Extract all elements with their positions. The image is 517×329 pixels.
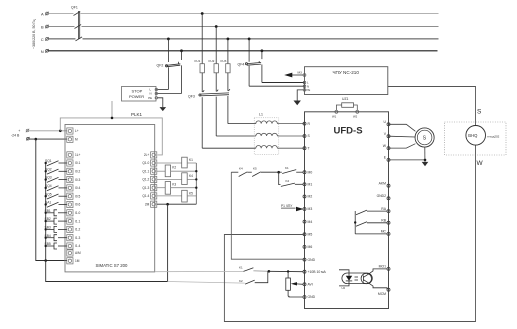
svg-text:GND2: GND2 <box>377 194 387 198</box>
ground symbol at CNC <box>294 101 301 106</box>
svg-text:U2: U2 <box>342 286 346 290</box>
svg-text:Q1.2: Q1.2 <box>142 178 149 182</box>
svg-text:~380/220 В, 50 Гц: ~380/220 В, 50 Гц <box>32 20 36 49</box>
svg-text:K2: K2 <box>239 279 243 283</box>
svg-text:1M: 1M <box>75 259 80 263</box>
wire 2M to relay common <box>157 203 197 205</box>
svg-text:I1.4: I1.4 <box>75 244 81 248</box>
junction dot C-FU3 <box>227 38 230 41</box>
fuse FU2 <box>209 27 219 92</box>
relay coil K3 <box>157 182 197 195</box>
junction dot +24V riser <box>59 130 62 133</box>
node C terminal <box>41 37 49 42</box>
junction dot 2M <box>166 203 169 206</box>
svg-text:A/M: A/M <box>75 251 81 255</box>
wire GND riser to K4 chain <box>231 172 304 259</box>
svg-text:I1.2: I1.2 <box>75 228 81 232</box>
PLC right pin column <box>151 152 157 208</box>
svg-text:N: N <box>41 49 44 54</box>
svg-text:I0.5: I0.5 <box>75 194 81 198</box>
svg-text:POWER: POWER <box>129 94 144 99</box>
pin W2 <box>356 110 359 113</box>
svg-text:K5: K5 <box>253 166 257 170</box>
svg-text:QF1: QF1 <box>71 6 78 10</box>
selector switch SA1 <box>45 201 67 208</box>
svg-text:MC: MC <box>381 230 387 234</box>
svg-text:AVI: AVI <box>308 283 313 287</box>
svg-text:Р1 ЧПУ: Р1 ЧПУ <box>281 204 293 208</box>
svg-text:GND: GND <box>308 295 316 299</box>
svg-text:I1.3: I1.3 <box>75 236 81 240</box>
junction dot 1M branch <box>44 259 47 262</box>
wire E to motor ground <box>389 159 426 161</box>
svg-text:+: + <box>18 129 20 133</box>
svg-text:L1: L1 <box>259 112 263 116</box>
internal relay contact RB <box>354 221 387 226</box>
svg-text:PE: PE <box>307 88 311 92</box>
svg-text:MCM: MCM <box>378 292 386 296</box>
wire 0V left riser to 1M <box>36 139 67 260</box>
wire switch common vertical <box>45 163 47 261</box>
svg-text:K1: K1 <box>189 158 193 162</box>
svg-text:MO1: MO1 <box>379 265 386 269</box>
svg-text:RB: RB <box>381 219 386 223</box>
svg-text:RA: RA <box>381 207 386 211</box>
breaker QF2 <box>157 39 182 94</box>
svg-text:A: A <box>41 12 44 17</box>
junction dot N-QF4 <box>261 49 264 52</box>
svg-text:T: T <box>308 146 310 150</box>
relay coil K2 <box>157 165 197 177</box>
wire CNC PE to ground <box>297 90 303 101</box>
wire neutral N <box>48 50 437 52</box>
svg-text:B: B <box>41 25 44 30</box>
junction dot bus/stop-power <box>111 117 114 120</box>
svg-text:FU1: FU1 <box>195 59 201 63</box>
limit switch SQ3 <box>45 176 67 183</box>
push button SB1 <box>45 209 67 216</box>
svg-text:UFD-S: UFD-S <box>334 126 363 137</box>
svg-text:QF4: QF4 <box>238 62 245 66</box>
svg-text:I0.6: I0.6 <box>75 203 81 207</box>
CNC pin PE <box>303 88 310 92</box>
node -24V terminal <box>11 134 30 141</box>
contact K4 <box>231 166 247 176</box>
svg-text:AKM: AKM <box>379 182 387 186</box>
svg-text:W1: W1 <box>332 115 337 119</box>
wire W to motor <box>389 144 416 148</box>
svg-text:п-код202: п-код202 <box>487 135 500 139</box>
wire relay common vertical <box>195 163 197 204</box>
relay coil K5 <box>157 190 197 202</box>
CNC pin N <box>303 84 309 88</box>
frequency drive UFD-S box <box>305 112 389 309</box>
motor M <box>415 128 434 147</box>
svg-text:K5: K5 <box>189 191 193 195</box>
CNC controller U-NC210 box <box>305 67 388 95</box>
junction dot N-QF2 <box>180 49 183 52</box>
svg-text:BHQ: BHQ <box>468 133 478 138</box>
svg-text:K4: K4 <box>189 174 193 178</box>
limit switch SQ4 <box>45 184 67 191</box>
svg-text:M5: M5 <box>308 233 313 237</box>
junction dot C-QF4 <box>248 38 251 41</box>
svg-text:K4: K4 <box>239 166 243 170</box>
ground symbol at stop-power <box>160 107 167 111</box>
svg-text:2L+: 2L+ <box>144 153 150 157</box>
inductor L1 <box>254 112 279 154</box>
pin W1 <box>335 110 338 113</box>
svg-text:Q1.4: Q1.4 <box>142 194 149 198</box>
svg-text:Q1.0: Q1.0 <box>142 161 149 165</box>
relay coil K4 <box>157 173 197 185</box>
CNC pin M3 <box>298 70 306 76</box>
ground symbol at motor <box>422 160 429 166</box>
wire opto collector to MO1 <box>369 269 388 274</box>
svg-text:M3: M3 <box>308 207 313 211</box>
power supply unit STOP POWER <box>122 87 158 102</box>
breaker QF4 <box>238 39 262 86</box>
svg-text:M3: M3 <box>298 70 303 74</box>
wire QF4 to CNC N <box>249 85 304 87</box>
junction dot K4 common <box>195 178 197 180</box>
wire QF3 to L1 R-row <box>228 123 256 125</box>
push button SB3 <box>45 226 67 233</box>
svg-text:I1.0: I1.0 <box>75 211 81 215</box>
svg-text:2M: 2M <box>145 202 150 206</box>
wire to +10V pin <box>269 270 303 272</box>
wire motor down <box>424 147 426 160</box>
contact K1 to M0 <box>279 166 303 174</box>
svg-text:FU3: FU3 <box>221 59 227 63</box>
junction dot K2 common <box>195 170 197 172</box>
push button SB2 <box>45 217 67 224</box>
svg-text:QF3: QF3 <box>188 94 195 98</box>
svg-text:M6: M6 <box>308 245 313 249</box>
wire phase B <box>48 26 438 28</box>
wire QF4 to CNC L <box>262 82 305 84</box>
wire QF3 to L1 S-row <box>216 135 256 137</box>
wire QF2 to stop-power N <box>156 93 181 95</box>
junction dot M0 chain <box>277 171 280 174</box>
contact K5 <box>247 166 278 176</box>
relay coil K1 <box>157 157 197 168</box>
svg-text:K2: K2 <box>172 166 176 170</box>
svg-text:K3: K3 <box>172 183 176 187</box>
svg-text:W2: W2 <box>353 115 358 119</box>
svg-text:Q1.3: Q1.3 <box>142 186 149 190</box>
svg-text:K2: K2 <box>286 179 290 183</box>
encoder dashed box <box>445 122 507 155</box>
contact K1 bottom <box>155 266 269 272</box>
internal relay contact RA <box>355 210 387 234</box>
svg-text:M0: M0 <box>308 170 313 174</box>
wire L1 to S <box>277 135 304 137</box>
wire CNC to encoder S <box>388 87 476 126</box>
svg-text:K1: K1 <box>285 166 289 170</box>
wire L1 to R <box>277 123 304 125</box>
wire -24V to PLC M <box>29 138 67 140</box>
label and arrow P1 CNC to M3 <box>281 204 304 211</box>
wire and arrow M3 signal <box>292 74 303 76</box>
push button SB5 <box>45 242 67 249</box>
svg-text:I0.1: I0.1 <box>75 161 81 165</box>
UFD-S right pins <box>387 123 390 291</box>
svg-text:K1: K1 <box>239 266 243 270</box>
svg-text:1L+: 1L+ <box>75 153 81 157</box>
svg-text:I0.4: I0.4 <box>75 186 81 190</box>
optocoupler U2 <box>339 270 372 290</box>
PLC right pin labels <box>142 153 149 206</box>
potentiometer R1 <box>286 272 303 298</box>
PLC left pin column <box>67 128 73 264</box>
encoder BRG circle <box>466 126 486 146</box>
junction dot pot top <box>287 270 289 272</box>
junction dot +10V <box>268 270 271 273</box>
svg-text:S: S <box>477 109 482 116</box>
limit switch SQ5 <box>45 192 67 199</box>
UFD-S right pin labels <box>377 120 387 296</box>
svg-text:-24 В: -24 В <box>11 134 20 138</box>
junction dot A-FU1 <box>201 12 204 15</box>
svg-text:I0.2: I0.2 <box>75 170 81 174</box>
junction dot B-FU2 <box>215 25 218 28</box>
svg-text:GND: GND <box>308 258 316 262</box>
fuse FU1 <box>195 14 205 93</box>
svg-text:I1.1: I1.1 <box>75 219 81 223</box>
svg-text:M1: M1 <box>308 183 313 187</box>
wire stop-power PE to ground <box>158 98 163 107</box>
wire L1 to T <box>277 147 304 149</box>
wire 2M corner to K2 contact (gray) <box>168 282 245 284</box>
contact K2 bottom <box>239 271 268 284</box>
breaker QF3 <box>188 89 230 148</box>
svg-text:SIMATIC S7 200: SIMATIC S7 200 <box>96 263 129 268</box>
limit switch SQ1 <box>45 159 67 166</box>
svg-text:UZ1: UZ1 <box>342 97 349 101</box>
wire opto emitter to MCM <box>369 283 388 290</box>
svg-text:FU2: FU2 <box>209 59 215 63</box>
wire V to motor <box>389 135 416 138</box>
junction dot motor ground <box>424 159 427 162</box>
svg-text:QF2: QF2 <box>157 64 164 68</box>
svg-text:M4: M4 <box>308 220 313 224</box>
PLC left pin labels <box>75 129 81 263</box>
PLC PLK1 box <box>65 112 155 272</box>
junction dot C-QF2 <box>167 38 170 41</box>
wire relay common to MC <box>355 233 387 235</box>
wire phase C <box>48 38 438 40</box>
UFD-S left pin labels <box>308 122 327 299</box>
svg-text:ЧПУ NC-210: ЧПУ NC-210 <box>333 70 360 75</box>
svg-text:C: C <box>41 37 44 42</box>
node B terminal <box>41 25 49 30</box>
wire M5 to encoder W loop <box>224 145 475 321</box>
node A terminal <box>41 12 49 17</box>
contact K2 to M1 <box>279 172 303 186</box>
junction dot K3 common <box>195 187 197 189</box>
wire 0V down to K2 contact <box>46 261 168 282</box>
breaker QF1 <box>71 6 82 41</box>
wire 2M down to K2 bottom contact <box>167 204 169 281</box>
svg-text:+10В 10 мА: +10В 10 мА <box>308 270 327 274</box>
svg-text:M: M <box>75 138 78 142</box>
junction dot 0V riser <box>35 138 38 141</box>
wire QF3 to L1 T-row <box>202 147 256 149</box>
brake unit UZ1 <box>336 97 357 110</box>
node +24V terminal <box>18 129 29 133</box>
svg-text:W: W <box>477 160 484 167</box>
svg-text:L+: L+ <box>75 129 79 133</box>
svg-text:M2: M2 <box>308 195 313 199</box>
wire +24V riser and bus to 2L+ <box>60 118 162 155</box>
push button SB4 <box>45 234 67 241</box>
svg-text:PLK1: PLK1 <box>131 112 143 117</box>
fuse FU3 <box>221 39 231 91</box>
node N terminal <box>41 49 49 54</box>
svg-text:Q1.1: Q1.1 <box>142 169 149 173</box>
wire U to motor <box>389 124 416 131</box>
wire stop-power bottom to 24V bus <box>111 101 113 118</box>
wire QF2 to stop-power L <box>156 89 168 91</box>
wire phase A <box>48 13 438 15</box>
svg-text:I0.3: I0.3 <box>75 178 81 182</box>
UFD-S left pins <box>303 122 306 298</box>
wire +24V to PLC L+ <box>29 130 67 132</box>
limit switch SQ2 <box>45 167 67 174</box>
CNC pin L <box>303 81 309 85</box>
svg-text:PE: PE <box>148 96 152 100</box>
